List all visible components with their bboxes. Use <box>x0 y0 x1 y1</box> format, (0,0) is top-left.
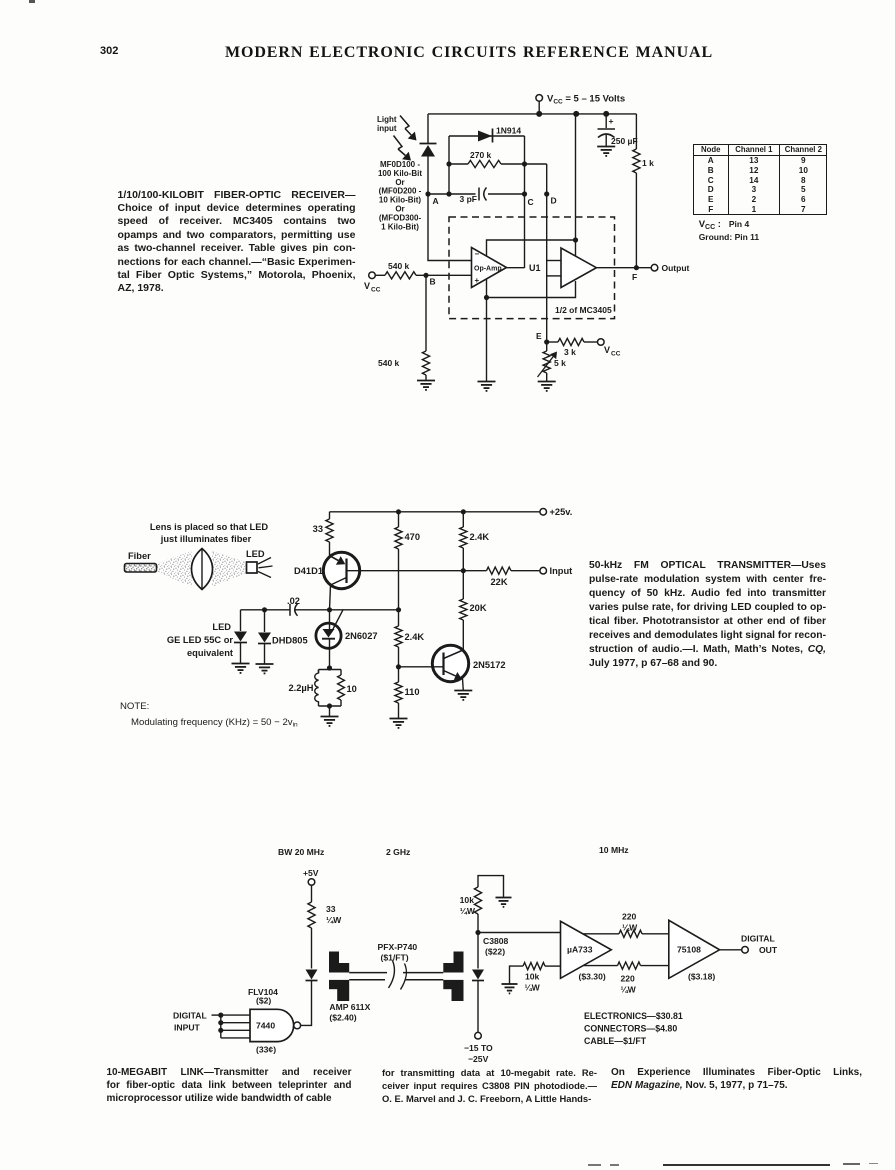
resistor 10k upper <box>460 887 482 933</box>
node LC top <box>327 665 332 670</box>
svg-text:10k: 10k <box>525 972 540 982</box>
capacitor 3 pF <box>460 188 487 205</box>
diode FLV104 LED <box>306 970 318 981</box>
wire rail to photodiode <box>427 114 429 143</box>
svg-text:2.4K: 2.4K <box>470 532 490 542</box>
comparator U1b <box>561 248 596 288</box>
light cone stipple <box>157 551 247 587</box>
svg-text:1/2 of MC3405: 1/2 of MC3405 <box>555 305 612 315</box>
wire comparator output to F <box>596 267 651 269</box>
svg-text:Op-Amp: Op-Amp <box>474 266 502 273</box>
resistor 540 k input <box>375 261 471 279</box>
wire 1N914 row <box>449 135 525 137</box>
svg-text:D: D <box>551 196 557 206</box>
wire lower feedback row <box>487 281 576 298</box>
svg-text:10 Kilo-Bit): 10 Kilo-Bit) <box>379 196 422 205</box>
node rail-576 <box>573 111 579 117</box>
resistor 22K <box>487 567 540 587</box>
wire FLV104 to gate output <box>301 981 312 1026</box>
transistor 2N5172 <box>432 645 505 681</box>
svg-text:7440: 7440 <box>256 1021 275 1031</box>
label LED GE LED 55C or equivalent <box>167 622 234 658</box>
wire D41D1 collector down <box>330 585 331 610</box>
comparator 75108 <box>669 920 720 978</box>
wire comparator lower input <box>547 275 561 277</box>
svg-text:($3.18): ($3.18) <box>688 972 715 982</box>
svg-text:MF0D100 -: MF0D100 - <box>380 160 420 169</box>
gate input wires <box>212 1015 251 1038</box>
svg-text:C: C <box>528 197 534 207</box>
caption 1/10/100-KILOBIT FIBER-OPTIC RECEIVER <box>118 189 356 296</box>
svg-text:just illuminates fiber: just illuminates fiber <box>160 534 252 544</box>
label 2 GHz <box>386 847 410 857</box>
svg-text:1 Kilo-Bit): 1 Kilo-Bit) <box>381 222 419 231</box>
ground lower input <box>502 984 518 993</box>
ground 110 <box>390 719 408 728</box>
Vcc label = 5-15 Volts <box>547 94 625 106</box>
pin connection table <box>693 144 827 215</box>
resistor 270 k <box>449 150 525 168</box>
svg-text:−15 TO: −15 TO <box>464 1043 493 1053</box>
transistor 2N6027 PUT <box>316 610 378 649</box>
label C3808 <box>483 936 509 957</box>
fiber cable end <box>125 564 157 573</box>
svg-text:INPUT: INPUT <box>174 1023 201 1033</box>
svg-text:220: 220 <box>621 974 636 984</box>
label 10 MHz <box>599 845 629 855</box>
svg-text:BW 20 MHz: BW 20 MHz <box>278 847 324 857</box>
node B <box>423 273 435 287</box>
svg-text:5 k: 5 k <box>554 358 566 368</box>
LED GE 55C <box>234 610 247 664</box>
wire PUT anode-cathode column <box>329 610 331 668</box>
resistor 1 k <box>633 149 654 173</box>
node opamp-bottom <box>484 295 489 300</box>
wire A column to op-amp minus input <box>428 194 472 261</box>
terminal Input <box>540 566 572 576</box>
photodiode MFOD100 light detector <box>420 144 437 157</box>
connector AMP 611X left <box>329 952 349 1002</box>
wire cap row <box>241 609 399 611</box>
svg-text:Modulating frequency (KHz) = 5: Modulating frequency (KHz) = 50 − 2vin <box>131 717 298 729</box>
node feedback-576 <box>573 237 578 242</box>
wire op-amp output to C column <box>507 267 525 269</box>
svg-text:V: V <box>604 345 610 355</box>
svg-text:2.4K: 2.4K <box>405 632 425 642</box>
ground DHD805 <box>256 664 274 673</box>
resistor 10k lower <box>510 963 561 993</box>
photodiode C3808 <box>472 933 484 1033</box>
svg-text:220: 220 <box>622 912 637 922</box>
op-amp uA733 <box>561 921 612 978</box>
trimmer 5 k <box>538 342 567 382</box>
svg-text:V: V <box>364 281 370 291</box>
svg-text:10k: 10k <box>460 895 475 905</box>
resistor 540 k to ground <box>378 275 430 380</box>
caption 10-MEGABIT LINK column 1 <box>107 1066 352 1105</box>
label FLV104 <box>248 987 278 1006</box>
ground hook <box>496 898 512 907</box>
bottom partial scan line <box>588 1164 601 1166</box>
terminal +25v <box>540 507 572 517</box>
label price list <box>584 1011 683 1046</box>
terminal Output <box>651 263 689 273</box>
svg-text:10 MHz: 10 MHz <box>599 845 629 855</box>
label $3.18 <box>688 972 715 982</box>
caption 10-MEGABIT LINK column 2 <box>382 1066 597 1105</box>
svg-text:CC: CC <box>371 287 381 294</box>
caption 10-MEGABIT LINK column 3 <box>611 1066 862 1092</box>
wire LC bottom to ground <box>327 703 332 716</box>
svg-text:−: − <box>475 250 480 259</box>
svg-text:540 k: 540 k <box>388 261 410 271</box>
svg-text:DHD805: DHD805 <box>272 636 308 646</box>
node E <box>536 331 549 345</box>
connector AMP 611X right <box>443 952 463 1002</box>
svg-text:+: + <box>609 116 614 126</box>
terminal Vcc comparator bias <box>598 339 621 358</box>
svg-text:Lens is placed so that LED: Lens is placed so that LED <box>150 522 269 532</box>
svg-text:(MF0D200 -: (MF0D200 - <box>379 187 422 196</box>
svg-text:2N5172: 2N5172 <box>473 660 506 670</box>
svg-text:¼W: ¼W <box>326 915 342 925</box>
label 33 cents <box>256 1045 276 1055</box>
page header title <box>225 44 713 62</box>
terminal -15 to -25V <box>464 1032 493 1064</box>
svg-text:33: 33 <box>313 524 323 534</box>
ground cap <box>597 147 615 156</box>
svg-text:B: B <box>430 277 436 287</box>
node left-3pF <box>446 191 451 196</box>
op-amp U1a <box>472 248 507 288</box>
svg-text:110: 110 <box>405 687 420 697</box>
label lens caption <box>150 522 269 544</box>
node input-2.4K <box>461 568 466 573</box>
svg-text:22K: 22K <box>491 577 508 587</box>
Vcc supply terminal <box>536 95 543 114</box>
svg-text:1N914: 1N914 <box>496 126 521 136</box>
label MFOD100 choices <box>378 160 422 231</box>
svg-text:GE LED 55C or: GE LED 55C or <box>167 635 234 645</box>
wire 270k row to D column <box>525 163 547 165</box>
svg-text:equivalent: equivalent <box>187 648 233 658</box>
svg-text:¼W: ¼W <box>525 983 541 993</box>
svg-text:C3808: C3808 <box>483 936 509 946</box>
capacitor 250 uF polarized <box>598 116 638 147</box>
LED box with rays <box>247 558 273 578</box>
svg-text:OUT: OUT <box>759 945 778 955</box>
resistor 220 lower <box>584 962 669 995</box>
resistor 470 <box>395 512 420 610</box>
wire op-amp top feedback <box>487 240 576 256</box>
terminal Vcc bias <box>364 272 381 294</box>
caption 50-kHz FM OPTICAL TRANSMITTER <box>589 559 826 671</box>
svg-text:2 GHz: 2 GHz <box>386 847 410 857</box>
svg-text:Or: Or <box>395 178 404 187</box>
terminal +5V <box>303 868 319 885</box>
svg-text:+: + <box>475 276 480 285</box>
svg-text:A: A <box>433 196 439 206</box>
svg-text:F: F <box>632 272 637 282</box>
svg-text:.02: .02 <box>287 596 300 606</box>
node D <box>544 191 557 205</box>
svg-text:($2): ($2) <box>256 996 271 1006</box>
svg-text:(33¢): (33¢) <box>256 1045 276 1055</box>
svg-text:input: input <box>377 124 397 133</box>
page number 302 <box>100 45 118 57</box>
resistor 20K <box>460 571 487 650</box>
wire inner left vertical <box>448 136 450 194</box>
resistor 33 <box>313 512 333 556</box>
cable break marks <box>389 961 407 990</box>
wire cap column <box>605 114 607 128</box>
svg-text:1 k: 1 k <box>642 158 654 168</box>
node base row <box>396 664 401 669</box>
resistor 2.4K mid <box>395 610 425 667</box>
wire 1k column top <box>635 114 637 149</box>
svg-text:75108: 75108 <box>677 945 701 955</box>
table note Vcc pin 4 <box>699 219 750 231</box>
svg-text:33: 33 <box>326 904 336 914</box>
terminal DIGITAL OUT <box>741 934 778 956</box>
resistor 2.4K top <box>460 512 490 571</box>
wire node A row (3 pF row) <box>428 193 525 195</box>
svg-text:100 Kilo-Bit: 100 Kilo-Bit <box>378 169 422 178</box>
svg-text:DIGITAL: DIGITAL <box>173 1011 207 1021</box>
label Light input <box>377 115 397 133</box>
lens <box>192 549 213 590</box>
diode DHD805 <box>258 610 308 664</box>
transistor D41D1 <box>294 552 360 588</box>
svg-text:Or: Or <box>395 205 404 214</box>
table note ground pin 11 <box>699 232 759 242</box>
ground 2N5172 <box>454 691 472 700</box>
svg-text:250 µF: 250 µF <box>611 136 638 146</box>
node rail-2.4K <box>461 509 466 514</box>
svg-text:($22): ($22) <box>485 947 505 957</box>
fiber cable PFX-P740 lines <box>349 973 443 980</box>
node A <box>425 191 438 206</box>
label DIGITAL INPUT <box>173 1011 207 1033</box>
svg-text:D41D1: D41D1 <box>294 566 323 576</box>
svg-text:U1: U1 <box>529 263 541 273</box>
node left-270k <box>446 161 451 166</box>
wire 2N5172 base row <box>399 666 444 668</box>
svg-text:¼W: ¼W <box>621 985 637 995</box>
wire C3808 top hook <box>478 876 504 898</box>
node rail-470 <box>396 509 401 514</box>
wire 1k to F <box>635 173 637 268</box>
svg-text:CC: CC <box>611 351 621 358</box>
svg-text:LED: LED <box>246 549 265 559</box>
svg-text:20K: 20K <box>470 603 487 613</box>
label NOTE <box>120 701 149 712</box>
label U1 <box>529 263 541 273</box>
node 470-cap row <box>396 607 401 612</box>
svg-text:Output: Output <box>662 263 690 273</box>
wire 576 column upper <box>575 114 577 256</box>
svg-text:ELECTRONICS—$30.81: ELECTRONICS—$30.81 <box>584 1011 683 1021</box>
ground 5k <box>538 382 556 391</box>
ground B column <box>417 381 435 390</box>
ground op-amp pin <box>478 382 496 391</box>
svg-text:10: 10 <box>347 684 357 694</box>
node C (3pF row) <box>522 191 534 207</box>
svg-text:3 k: 3 k <box>564 347 576 357</box>
svg-text:VCC = 5 – 15 Volts: VCC = 5 – 15 Volts <box>547 94 625 106</box>
gate 7440 NAND <box>250 1009 301 1041</box>
svg-text:CONNECTORS—$4.80: CONNECTORS—$4.80 <box>584 1024 677 1034</box>
svg-text:+25v.: +25v. <box>550 507 573 517</box>
wire base-input row <box>347 570 487 572</box>
resistor 3 k <box>547 338 598 357</box>
svg-text:PFX-P740: PFX-P740 <box>378 942 418 952</box>
ground LED <box>232 664 250 673</box>
svg-text:E: E <box>536 331 542 341</box>
label Fiber <box>128 551 151 561</box>
svg-text:¼W: ¼W <box>622 923 638 933</box>
label LED pictorial <box>246 549 265 559</box>
label BW 20 MHz <box>278 847 324 857</box>
svg-text:($3.30): ($3.30) <box>579 972 606 982</box>
svg-text:470: 470 <box>405 532 421 542</box>
resistor 33 quarter W <box>308 885 342 968</box>
svg-text:(MFOD300-: (MFOD300- <box>379 213 422 222</box>
svg-text:Fiber: Fiber <box>128 551 151 561</box>
svg-text:−25V: −25V <box>468 1054 489 1064</box>
svg-text:Input: Input <box>550 566 573 576</box>
svg-text:NOTE:: NOTE: <box>120 701 149 712</box>
wire photodiode to node A <box>427 157 429 195</box>
dashed box 1/2 of MC3405 <box>449 217 615 319</box>
node rail-cap <box>603 111 609 117</box>
label PFX-P740 <box>378 942 418 963</box>
label AMP 611X <box>329 1002 370 1023</box>
label modulating frequency <box>131 717 298 729</box>
node cap row left <box>262 607 267 612</box>
wire top supply rail <box>428 113 636 115</box>
scan speck top <box>29 0 35 3</box>
resistor 220 upper <box>584 912 669 938</box>
wire D column <box>546 164 548 342</box>
node F <box>632 265 639 282</box>
wire C3808 to amp input <box>478 932 561 934</box>
resistor 110 <box>395 667 420 719</box>
node gate in1 <box>218 1013 223 1018</box>
svg-text:DIGITAL: DIGITAL <box>741 934 775 944</box>
svg-text:($2.40): ($2.40) <box>329 1013 356 1023</box>
svg-text:270 k: 270 k <box>470 150 492 160</box>
light input arrows <box>394 116 417 161</box>
svg-text:3 pF: 3 pF <box>460 194 477 204</box>
svg-text:2N6027: 2N6027 <box>345 631 378 641</box>
svg-text:CABLE—$1/FT: CABLE—$1/FT <box>584 1036 647 1046</box>
svg-text:540 k: 540 k <box>378 358 400 368</box>
inductor 2.2uH parallel resistor 10 <box>289 670 357 707</box>
label $3.30 <box>579 972 606 982</box>
svg-text:¼W: ¼W <box>460 906 476 916</box>
node gate in2 <box>218 1020 223 1025</box>
wire C column <box>524 136 526 268</box>
ground LC <box>321 717 339 726</box>
node C3808 <box>475 930 480 935</box>
wire comparator upper input <box>547 260 561 262</box>
svg-text:LED: LED <box>212 622 231 632</box>
svg-text:AMP 611X: AMP 611X <box>329 1002 370 1012</box>
svg-text:Light: Light <box>377 115 397 124</box>
svg-text:+5V: +5V <box>303 868 319 878</box>
wire digital out <box>720 949 742 951</box>
wire +25v rail <box>330 511 540 513</box>
diode 1N914 <box>478 126 521 143</box>
svg-text:($1/FT): ($1/FT) <box>381 953 409 963</box>
svg-text:2.2µH: 2.2µH <box>289 683 314 693</box>
capacitor .02 <box>287 596 300 616</box>
node C-270k <box>522 161 527 166</box>
wire 2N5172 emitter to ground <box>462 679 465 691</box>
svg-text:µA733: µA733 <box>567 945 593 955</box>
wire op-amp bottom pin <box>486 279 488 382</box>
node cap-PUT anode <box>327 607 332 612</box>
node gate in3 <box>218 1028 223 1033</box>
node rail-Vcc <box>536 111 542 117</box>
